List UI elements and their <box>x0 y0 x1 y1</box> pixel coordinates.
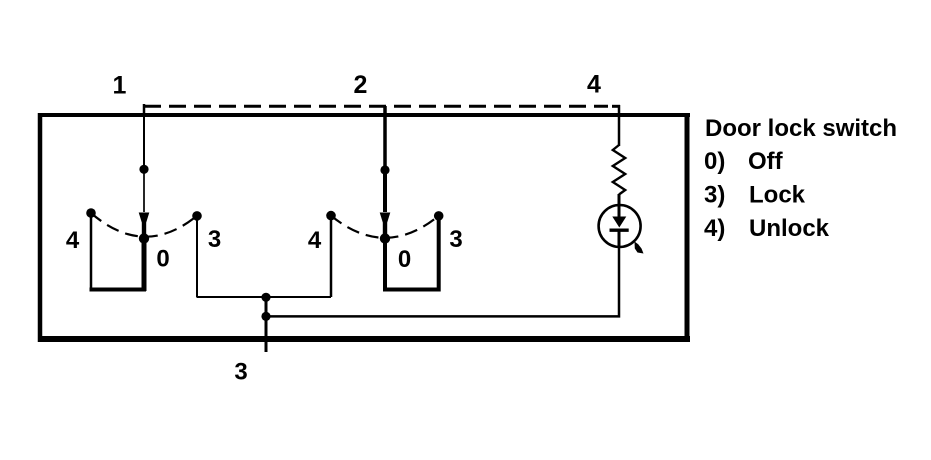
legend row 3) Lock <box>704 182 806 209</box>
svg-text:Off: Off <box>748 148 784 175</box>
svg-text:Lock: Lock <box>749 182 806 209</box>
node switch 2 contact 4 <box>326 211 336 221</box>
svg-text:3: 3 <box>449 226 462 253</box>
svg-text:4: 4 <box>587 71 601 99</box>
switch 1 wiper arrow <box>139 169 150 234</box>
wire switch 1 contact 4 to pole (U link) <box>91 213 144 290</box>
svg-text:3: 3 <box>234 359 247 386</box>
svg-text:1: 1 <box>113 72 127 100</box>
switch 2 travel arc <box>331 216 439 238</box>
svg-text:3: 3 <box>208 226 221 253</box>
switch 2 wiper arrow (thick) <box>380 170 391 234</box>
wire switch 1 contact 3 drop <box>196 216 198 297</box>
wire resistor to lamp <box>618 194 621 217</box>
node switch 1 input junction <box>139 165 148 174</box>
node switch 1 pole 0 <box>139 233 149 243</box>
legend row 4) Unlock <box>704 215 830 242</box>
wire bottom link (sw1 contact3 to sw2 contact4) <box>197 296 332 298</box>
node terminal 3 junction lower <box>261 312 270 321</box>
wire switch 2 pole to contact 3 (U link, thick) <box>385 216 439 290</box>
svg-text:3): 3) <box>704 182 725 209</box>
svg-text:4): 4) <box>704 215 725 242</box>
switch 1 travel arc <box>91 213 197 237</box>
legend row 0) Off <box>704 148 784 175</box>
svg-text:2: 2 <box>354 71 368 99</box>
wire terminal 4 lead <box>618 105 621 146</box>
wire terminal 2 lead (thick) <box>383 106 387 170</box>
wire switch 1 U bottom (thick) <box>90 288 147 292</box>
wire lamp return <box>266 246 619 316</box>
node switch 2 contact 3 <box>434 211 444 221</box>
svg-text:0: 0 <box>398 246 411 273</box>
svg-text:Door lock switch: Door lock switch <box>705 115 897 142</box>
node terminal 3 junction upper <box>261 293 270 302</box>
svg-text:4: 4 <box>66 227 80 254</box>
lamp LED L1 <box>599 205 644 254</box>
wire terminal 3 stub <box>265 295 268 352</box>
switch body outline <box>38 113 690 342</box>
wire switch 1 pole drop (thick) <box>142 238 147 291</box>
node switch 2 pole 0 <box>380 233 390 243</box>
svg-text:Unlock: Unlock <box>749 215 830 242</box>
svg-text:4: 4 <box>308 227 322 254</box>
node switch 2 input junction <box>380 165 389 174</box>
wire dashed bus (terminals 1-2-4) <box>144 104 620 117</box>
wire switch 2 contact 4 drop <box>330 216 333 297</box>
wire terminal 1 lead <box>143 106 145 169</box>
svg-text:0: 0 <box>156 246 169 273</box>
resistor R <box>613 145 625 195</box>
svg-text:0): 0) <box>704 148 725 175</box>
node switch 1 contact 3 <box>192 211 202 221</box>
node switch 1 contact 4 <box>86 208 96 218</box>
